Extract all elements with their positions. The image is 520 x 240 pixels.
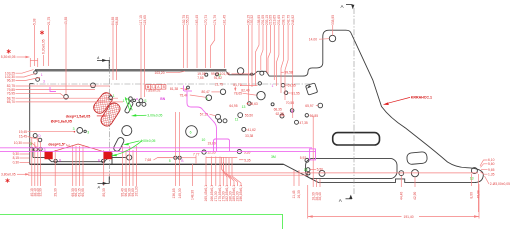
label 19,89	[208, 142, 216, 146]
bottom cluster far left	[30, 137, 43, 197]
hole left low 2	[39, 147, 42, 150]
label 5,92	[300, 156, 307, 160]
bracket hole 56	[305, 114, 308, 117]
svg-text:32,30: 32,30	[39, 188, 43, 196]
label 12,85	[246, 129, 247, 131]
label 19,05	[197, 72, 205, 76]
svg-text:3: 3	[44, 148, 46, 152]
tilted stadium lower	[113, 137, 125, 153]
stack 82/79/76	[7, 84, 110, 96]
svg-text:5,50: 5,50	[317, 168, 324, 172]
svg-text:140,30: 140,30	[178, 188, 182, 198]
svg-text:45,08: 45,08	[477, 190, 481, 198]
svg-text:148,30: 148,30	[191, 190, 195, 200]
svg-text:44,40: 44,40	[400, 192, 404, 200]
svg-text:33,38: 33,38	[245, 134, 253, 138]
svg-text:3: 3	[30, 142, 32, 146]
svg-text:219,65: 219,65	[273, 15, 277, 25]
svg-text:19,89: 19,89	[208, 142, 216, 146]
hole on centerline x66	[64, 95, 69, 100]
hole left end 2	[36, 78, 40, 82]
bottom cluster x206-241	[204, 157, 243, 202]
bracket hole 49	[281, 83, 285, 87]
svg-text:181,45: 181,45	[223, 15, 227, 25]
small circle x134	[133, 99, 136, 102]
label 7,68	[145, 158, 174, 163]
top edge thick bar	[35, 69, 226, 72]
dim 21,75	[47, 17, 51, 66]
section arrow A top left	[96, 56, 109, 69]
green curve leader to square	[111, 140, 143, 156]
bracket hole 65	[318, 103, 323, 108]
svg-text:5,35: 5,35	[244, 150, 251, 154]
GD&T frame	[146, 85, 166, 90]
hole on thin line	[251, 73, 253, 75]
red filled square right	[104, 152, 112, 160]
svg-text:6,30±0,05: 6,30±0,05	[42, 39, 46, 54]
svg-text:5: 5	[169, 159, 171, 163]
label 5,50	[310, 168, 323, 172]
svg-text:338,95: 338,95	[331, 15, 335, 25]
svg-text:3: 3	[206, 97, 208, 101]
svg-text:86,85: 86,85	[115, 17, 119, 25]
hole mid plate	[136, 102, 140, 106]
hole on ledge 1	[205, 73, 208, 76]
svg-text:56,85: 56,85	[310, 114, 318, 118]
label 78,65	[234, 91, 257, 95]
label 7,55	[197, 76, 204, 80]
svg-text:0,30: 0,30	[13, 161, 20, 165]
dim 119,65	[143, 15, 147, 97]
bottom hole x322	[319, 170, 325, 176]
magenta box mid	[214, 139, 230, 151]
bottom single x103	[102, 150, 106, 197]
svg-text:1: 1	[123, 99, 125, 103]
svg-text:10: 10	[202, 138, 206, 142]
svg-text:11,45: 11,45	[292, 190, 296, 198]
svg-text:A: A	[97, 186, 101, 190]
bottom cluster x122-136	[121, 146, 139, 197]
left edge top step	[30, 83, 34, 85]
label 3,80 with arrow	[1, 173, 30, 177]
hole big x220	[220, 89, 225, 94]
label 33,38	[245, 134, 253, 138]
bottom pair x174-180	[172, 112, 182, 199]
svg-text:13: 13	[242, 105, 246, 109]
svg-text:103,20: 103,20	[155, 71, 165, 75]
small slot lower right	[407, 152, 428, 165]
svg-text:2-Ø3,00±0,05: 2-Ø3,00±0,05	[490, 182, 510, 186]
bracket top hole	[329, 35, 335, 41]
svg-text:21,75: 21,75	[47, 17, 51, 25]
svg-text:65,70: 65,70	[7, 100, 15, 104]
datum A top right	[341, 4, 355, 9]
svg-text:5,60: 5,60	[488, 162, 495, 166]
bottom hole right	[471, 168, 477, 174]
labels 99,70 101,95	[211, 72, 251, 76]
long dim line y173	[28, 172, 478, 174]
label 99,58	[281, 71, 293, 75]
middle slot (rounded rect)	[333, 133, 380, 145]
svg-text:6: 6	[190, 131, 192, 135]
bold label deep=1,5 upper	[66, 114, 107, 118]
bottom single x189	[191, 164, 195, 200]
svg-text:242,75: 242,75	[286, 15, 290, 25]
label 81,38	[170, 87, 187, 91]
svg-text:A: A	[96, 56, 100, 60]
hole x243	[242, 127, 246, 131]
svg-text:62,35: 62,35	[276, 112, 284, 116]
label 80,47	[202, 90, 220, 94]
hole mid plate 2	[142, 102, 146, 106]
hole big mid low	[186, 126, 198, 138]
dim 84,85	[111, 17, 115, 80]
hole x188	[187, 86, 190, 89]
svg-text:248,92: 248,92	[291, 15, 295, 25]
svg-text:BN: BN	[160, 97, 165, 101]
svg-text:196,85±0,1: 196,85±0,1	[239, 185, 243, 202]
label 68,00	[274, 108, 282, 112]
svg-text:19,45: 19,45	[19, 130, 27, 134]
svg-text:1: 1	[41, 73, 43, 77]
bottom single x55	[53, 150, 57, 197]
svg-text:174,79: 174,79	[213, 15, 217, 25]
dim 43,85	[64, 17, 68, 95]
red V pointer lines	[49, 144, 108, 153]
svg-text:10,30: 10,30	[14, 141, 22, 145]
bold label diameter	[51, 120, 72, 124]
label 91,52	[214, 76, 222, 80]
vertical section line A-A left	[109, 57, 111, 183]
svg-text:8,15: 8,15	[13, 156, 20, 160]
small tilted pin rectangle	[124, 101, 133, 114]
green label 4,00	[123, 139, 155, 145]
green label 3,00	[131, 114, 163, 118]
horizontal centerline	[29, 83, 312, 85]
bottom pair x397-407	[400, 176, 418, 200]
bottom pair x294-299	[292, 170, 301, 199]
hole left low	[34, 148, 38, 152]
bracket right slant edge	[351, 33, 466, 168]
green slant line near plug	[125, 97, 132, 111]
big circle below plug	[122, 126, 132, 136]
svg-text:136,85: 136,85	[172, 188, 176, 198]
svg-text:80,47: 80,47	[202, 90, 210, 94]
svg-text:Ød=1,6±0,05: Ød=1,6±0,05	[51, 120, 72, 124]
bracket upper-left outline	[303, 30, 352, 76]
label 21,75b	[215, 83, 223, 87]
svg-text:13: 13	[470, 177, 474, 181]
svg-text:43,85: 43,85	[64, 17, 68, 25]
svg-text:3,80±0,05: 3,80±0,05	[1, 173, 16, 177]
top edge step and thin continuation	[226, 71, 302, 76]
bottom hole 2	[411, 170, 418, 177]
bracket right nose	[467, 168, 484, 183]
stack 9/8/0	[13, 152, 30, 164]
hole left mid 1	[33, 134, 37, 138]
hatched plug lobe B	[99, 101, 122, 128]
label 57,15	[200, 112, 216, 116]
label 81,75 with down arrow	[233, 83, 241, 92]
hole x259	[258, 82, 261, 85]
magenta dot	[136, 98, 138, 100]
svg-text:191,40: 191,40	[404, 215, 414, 219]
label 5,35	[242, 150, 251, 154]
stack 19/15	[19, 130, 75, 139]
stack 103/102/96	[5, 70, 40, 83]
bold label deep=1,5 lower	[48, 143, 70, 147]
svg-text:55,50: 55,50	[245, 113, 253, 117]
hole x240	[238, 113, 243, 118]
svg-text:5,35: 5,35	[244, 158, 251, 162]
small circle x141	[139, 99, 143, 103]
bottom step at left	[30, 147, 33, 157]
svg-text:119,65: 119,65	[143, 15, 147, 25]
label 49,55	[285, 84, 296, 88]
svg-text:8,00: 8,00	[470, 192, 474, 199]
bracket hole 68	[290, 109, 294, 113]
small circle pair on plug top	[109, 96, 113, 100]
hole on top line x261	[260, 71, 264, 75]
hole small x85	[84, 130, 86, 132]
hole pair 2	[223, 119, 227, 123]
svg-text:15,45: 15,45	[19, 135, 27, 139]
bracket bottom edge with notch	[284, 164, 476, 182]
GD&T cell text	[151, 85, 165, 89]
svg-text:47,35: 47,35	[300, 121, 308, 125]
groove bottom holes	[174, 156, 177, 159]
svg-text:82,40: 82,40	[241, 88, 249, 92]
svg-text:160,45±0,1: 160,45±0,1	[204, 185, 208, 202]
svg-text:38,45: 38,45	[318, 192, 322, 200]
svg-text:238,73: 238,73	[282, 15, 286, 25]
bold label KRRAHCC.1	[383, 96, 432, 105]
hole bottom step	[127, 155, 132, 160]
svg-text:231,65: 231,65	[277, 15, 281, 25]
label 5,35 low	[239, 158, 251, 162]
hole x261	[257, 91, 265, 99]
svg-text:155,25: 155,25	[185, 15, 189, 25]
svg-text:101,30: 101,30	[135, 186, 139, 196]
hatched plug (rotated stadium)	[91, 90, 114, 115]
hole x307	[305, 158, 309, 162]
label 62,35	[276, 112, 285, 116]
hole pair 1	[218, 119, 222, 123]
svg-text:3,00±0,05: 3,00±0,05	[147, 114, 162, 118]
label 81,55	[288, 91, 300, 95]
magenta long line 2	[0, 150, 316, 152]
magenta dash	[184, 90, 192, 92]
hole x218 low	[216, 114, 221, 119]
svg-text:81,38: 81,38	[170, 87, 178, 91]
svg-text:81,55: 81,55	[292, 91, 300, 95]
svg-text:16,30: 16,30	[297, 190, 301, 198]
svg-text:3: 3	[73, 127, 75, 131]
svg-text:9: 9	[219, 73, 221, 77]
vertical datum line A right	[353, 8, 355, 194]
dim 6,30	[42, 39, 46, 66]
svg-text:deep=1,5⁺₀,₂: deep=1,5⁺₀,₂	[48, 143, 70, 147]
svg-text:9,65: 9,65	[488, 168, 495, 172]
bottom edge long line	[30, 163, 284, 165]
stack 68/65	[7, 96, 123, 104]
dim cluster right top	[247, 15, 295, 118]
svg-text:5,38: 5,38	[33, 18, 37, 25]
dim 338,95	[331, 15, 335, 36]
red filled square left	[45, 152, 53, 160]
dim 191,40 bottom right	[308, 184, 479, 219]
svg-text:KRRAHCC.1: KRRAHCC.1	[411, 96, 432, 100]
label 65,97	[305, 104, 318, 108]
label 47,35	[299, 121, 308, 125]
svg-text:4,00±0,05: 4,00±0,05	[140, 139, 155, 143]
bottom pair right x471-478	[470, 174, 481, 212]
leader row y157	[158, 157, 174, 159]
dim 5,38	[33, 18, 37, 66]
hole left mid 2	[38, 138, 42, 142]
magenta routing path	[187, 92, 217, 151]
hole left end 1	[34, 71, 37, 74]
right edge stack labels	[480, 158, 510, 186]
bracket hole 81	[284, 91, 288, 95]
label 7,77	[193, 152, 200, 164]
svg-text:29,30: 29,30	[53, 188, 57, 196]
long dim line y175	[28, 174, 308, 176]
section arrow A bottom left	[97, 177, 110, 190]
svg-text:21,75: 21,75	[215, 83, 223, 87]
svg-text:5,30±0,05: 5,30±0,05	[1, 55, 16, 59]
datum A bottom right	[339, 195, 353, 203]
hole on ledge 2	[216, 73, 219, 76]
svg-text:65,97: 65,97	[305, 104, 313, 108]
hole in slot	[306, 168, 310, 172]
bottom hole 1	[399, 171, 404, 176]
bottom trio x308-324	[311, 116, 322, 201]
section edge tick	[111, 153, 113, 165]
centerline over plug	[109, 93, 111, 127]
label 64,95	[229, 104, 237, 108]
left end vertical edge	[29, 84, 31, 165]
svg-text:3: 3	[43, 79, 45, 83]
label 70,55	[286, 101, 294, 105]
svg-text:80,30: 80,30	[102, 188, 106, 196]
svg-text:42,90: 42,90	[413, 192, 417, 200]
svg-text:3: 3	[87, 131, 89, 135]
magenta long line 1	[0, 147, 312, 149]
svg-text:96,30: 96,30	[7, 79, 15, 83]
hole mid big left	[77, 127, 83, 133]
svg-text:7,77: 7,77	[193, 152, 200, 156]
svg-text:7,85±0,02: 7,85±0,02	[146, 89, 161, 93]
svg-text:1: 1	[272, 84, 274, 88]
svg-text:68,63: 68,63	[250, 102, 258, 106]
dim 86,85	[115, 17, 119, 80]
svg-text:7,55: 7,55	[197, 76, 204, 80]
svg-text:163,45: 163,45	[195, 15, 199, 25]
svg-text:1,35: 1,35	[488, 172, 495, 176]
hole x179	[178, 156, 181, 159]
svg-text:3M: 3M	[271, 155, 276, 159]
svg-text:7,68: 7,68	[145, 158, 152, 162]
label 56,85	[309, 114, 319, 118]
dim 117,15	[139, 15, 143, 98]
hole groove right	[102, 159, 105, 162]
label 103,20	[155, 71, 186, 75]
label 82,40	[240, 85, 258, 92]
hole bar end	[237, 68, 243, 74]
magenta hook left	[50, 87, 56, 92]
hole x272	[271, 103, 274, 106]
svg-text:11: 11	[235, 118, 239, 122]
big bottom slot (rounded rect)	[306, 158, 397, 178]
bracket hole 47	[295, 120, 299, 124]
svg-text:170,73: 170,73	[204, 15, 208, 25]
label 75,40	[180, 93, 206, 97]
svg-text:70,55: 70,55	[286, 101, 294, 105]
svg-text:deep=1,5±0,05: deep=1,5±0,05	[66, 114, 90, 118]
bracket hole 62	[280, 114, 284, 118]
magenta stub top	[183, 86, 185, 92]
svg-text:64,95: 64,95	[229, 104, 237, 108]
bottom hole x308	[307, 172, 310, 175]
dim cluster mid top	[182, 15, 227, 68]
svg-text:15: 15	[304, 168, 308, 172]
svg-text:99,58: 99,58	[285, 71, 293, 75]
label 14,00 with leader	[309, 38, 329, 42]
svg-text:1: 1	[113, 94, 115, 98]
bottom cluster x72-83	[71, 146, 85, 197]
svg-text:78,65: 78,65	[234, 91, 242, 95]
svg-text:41,62: 41,62	[248, 128, 256, 132]
label 41,62	[248, 128, 256, 132]
label 10,30	[14, 141, 38, 148]
hole groove left	[54, 159, 57, 162]
hole x204	[202, 150, 206, 154]
magenta box right	[310, 149, 316, 160]
hole x249	[248, 102, 252, 106]
svg-text:60,95: 60,95	[81, 188, 85, 196]
svg-text:69,55: 69,55	[288, 84, 296, 88]
label 68,63	[247, 102, 258, 106]
green baseline bottom	[0, 214, 283, 229]
hole x208	[206, 95, 212, 101]
hole x239	[237, 150, 241, 154]
svg-text:76,95: 76,95	[7, 92, 15, 96]
label 55,50	[245, 113, 253, 117]
svg-text:5,92: 5,92	[300, 156, 307, 160]
label 7,85	[146, 89, 161, 93]
label 12,35	[207, 151, 215, 155]
bottom groove profile	[33, 157, 127, 161]
svg-text:81,75: 81,75	[233, 83, 241, 87]
svg-text:14,00: 14,00	[309, 38, 317, 42]
tilted square corner mark	[306, 85, 311, 89]
svg-text:193,52: 193,52	[250, 15, 254, 25]
label 5,30 with arrow	[1, 55, 38, 67]
star top left	[7, 49, 11, 53]
hole x93	[91, 83, 96, 88]
star upper	[40, 30, 44, 34]
star bottom left	[6, 178, 10, 182]
tilted square hole on bracket	[306, 83, 318, 95]
